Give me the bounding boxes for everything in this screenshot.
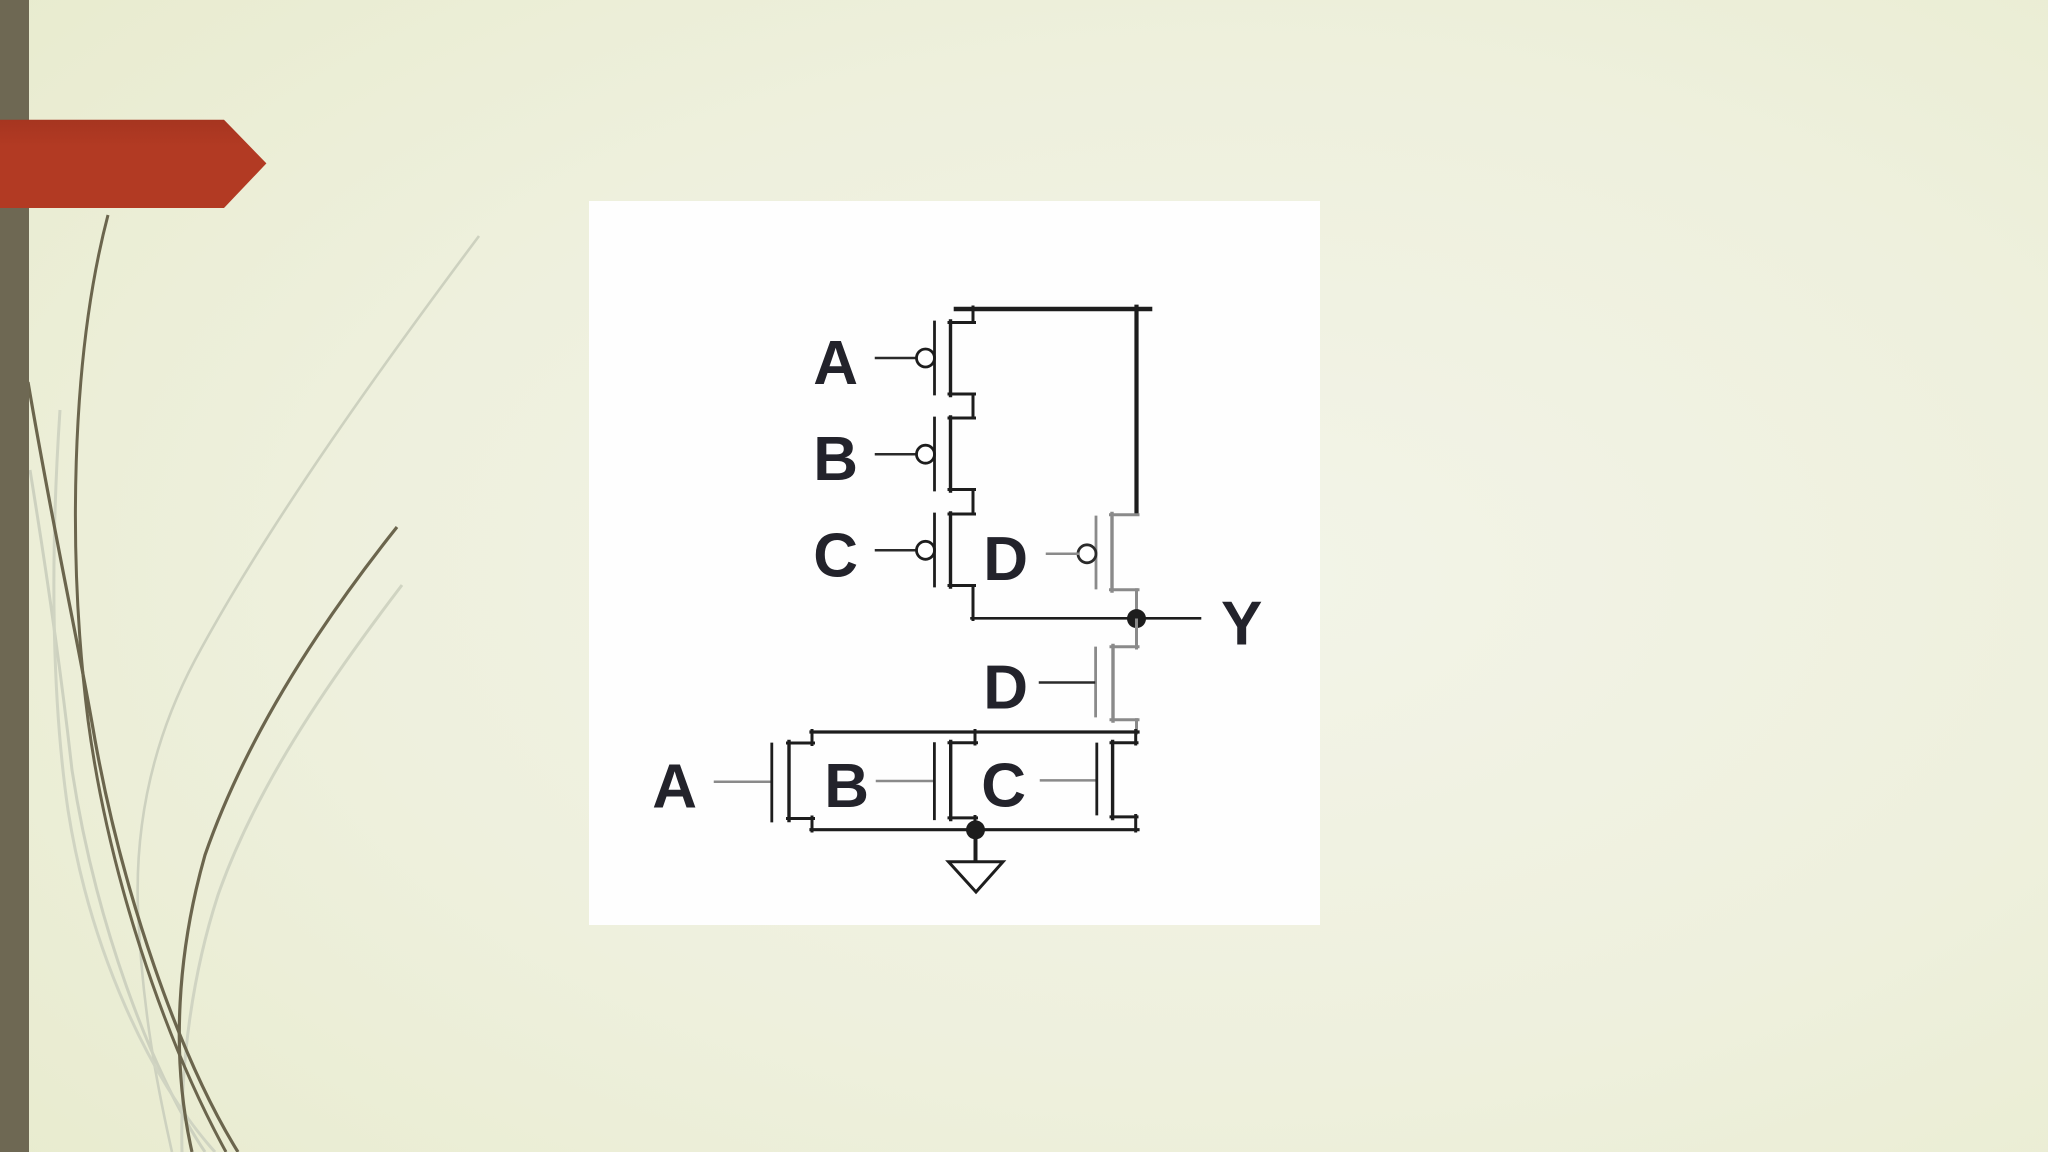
pmos C channel [949,513,952,587]
wire VDD down to PMOS chain [972,307,975,323]
wire nmos A source to ground rail [811,817,814,831]
ground stem wire [974,830,978,862]
pmos C source stub [949,513,975,516]
wire pmos D to node Y [1135,590,1138,619]
decorative light curve shadow of big sweep [182,585,402,1152]
node Y wire [972,617,1201,620]
pmos B gate lead [876,453,917,456]
nmos B channel [949,741,952,819]
nmos A gate bar [770,744,773,821]
decorative dark curve tall [75,215,226,1152]
nmos B source stub [949,816,977,819]
pmos D gate bar [1095,517,1098,588]
pmos D source stub [1111,513,1139,516]
decorative dark curve left [28,382,238,1152]
pmos C gate lead [876,549,917,552]
wire pmos C down to Y line [972,586,975,620]
wire node Y to nmos D drain [1135,620,1138,648]
wire pmos B to pmos C [972,490,975,515]
junction dot ground node [966,820,985,839]
svg-text:A: A [652,753,697,822]
nmos D drain stub [1111,645,1138,648]
nmos A channel [787,742,790,821]
pmos A bubble [917,349,935,367]
nmos A drain stub [788,742,814,745]
power rail VDD [956,307,1150,312]
pmos D channel [1110,514,1113,592]
wire nmos C source to ground rail [1134,816,1137,832]
pmos A gate bar [933,322,936,394]
pmos D drain stub [1111,588,1139,591]
svg-text:C: C [813,521,858,590]
decorative dark curve big sweep [179,527,397,1152]
red arrow banner [0,120,266,208]
nmos C gate bar [1095,744,1098,814]
svg-text:B: B [813,425,858,494]
pmos B gate bar [933,418,936,490]
wire rail to nmos B drain [974,731,977,745]
pmos C gate bar [933,514,936,586]
wire pmos A to pmos B [972,394,975,418]
svg-text:D: D [983,525,1028,594]
nmos B gate lead [877,780,933,783]
pmos B channel [949,417,952,491]
nmos C gate lead [1041,779,1095,782]
middle rail [811,730,1138,733]
pmos A source stub [949,321,975,324]
nmos B drain stub [949,741,977,744]
pmos C drain stub [949,584,975,587]
svg-text:A: A [813,329,858,398]
decorative light curve pair 2 [54,410,215,1152]
nmos D source stub [1111,718,1138,721]
pmos B drain stub [949,488,975,491]
wire nmos D to middle rail [1135,720,1138,733]
nmos C channel [1111,742,1114,819]
pmos A drain stub [949,393,975,396]
decorative light curve pair 1 [30,470,205,1152]
pmos A channel [949,321,952,396]
pmos B source stub [949,417,975,420]
pmos C bubble [917,541,935,559]
nmos A gate lead [715,780,770,783]
pmos A gate lead [876,357,917,360]
ground rail [811,828,1138,831]
pmos D bubble [1078,545,1096,563]
decorative light curve long [138,236,479,1152]
pmos B bubble [917,445,935,463]
wire rail to nmos C drain [1134,731,1137,745]
svg-text:C: C [981,751,1026,820]
nmos C source stub [1111,815,1137,818]
left sidebar bar [0,0,29,1152]
svg-text:Y: Y [1221,589,1262,658]
svg-text:D: D [983,654,1028,723]
nmos B gate bar [933,744,936,819]
svg-text:B: B [824,752,869,821]
wire nmos B source to ground junction [974,817,977,832]
ground symbol triangle [949,862,1004,892]
nmos D channel [1111,646,1114,722]
white content box [589,201,1320,925]
nmos D gate bar [1094,648,1097,716]
pmos D gate lead [1047,553,1079,556]
nmos A source stub [788,817,814,820]
nmos D gate lead [1040,681,1094,684]
nmos C drain stub [1111,741,1137,744]
wire rail to nmos A drain [811,731,814,745]
junction dot node Y [1127,609,1146,628]
wire VDD to pmos D source [1134,307,1138,513]
